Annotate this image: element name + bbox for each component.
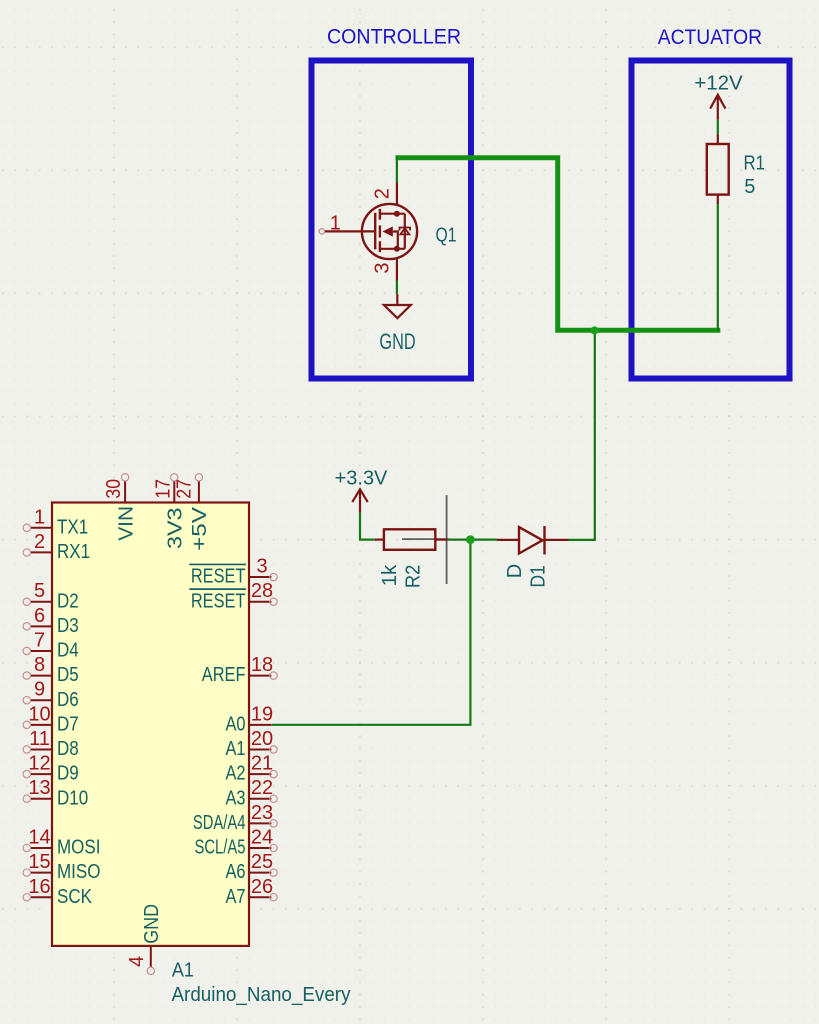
svg-text:D1: D1 (528, 565, 550, 588)
Q1 pin 2 drain (396, 183, 398, 205)
svg-text:30: 30 (103, 479, 125, 499)
svg-text:GND: GND (379, 329, 415, 354)
svg-text:13: 13 (28, 777, 50, 799)
svg-text:D5: D5 (57, 664, 79, 686)
svg-text:10: 10 (28, 703, 50, 725)
svg-text:3: 3 (256, 556, 267, 578)
svg-text:RESET: RESET (191, 590, 246, 612)
svg-text:16: 16 (28, 876, 50, 898)
wire: R1 bottom to thick net (717, 204, 719, 330)
pin 28 RESET (right) (249, 601, 271, 603)
svg-text:23: 23 (251, 802, 273, 824)
svg-text:A1: A1 (172, 959, 194, 981)
Q1 substrate arrow (382, 226, 392, 236)
svg-text:4: 4 (126, 956, 148, 967)
svg-text:+3.3V: +3.3V (335, 467, 388, 489)
svg-text:1: 1 (34, 506, 45, 528)
svg-text:22: 22 (251, 777, 273, 799)
svg-text:GND: GND (141, 904, 163, 944)
resistor R2 (375, 538, 384, 540)
svg-text:+12V: +12V (694, 72, 743, 94)
Q1 pin 3 source (396, 259, 398, 280)
pin 19 A0 (right) (249, 724, 271, 726)
pin 25 A6 (right) (249, 872, 271, 874)
Q1 schottky body diode (400, 228, 409, 234)
svg-text:A3: A3 (225, 787, 245, 809)
pin 24 SCL/A5 (right) (249, 847, 271, 849)
wire: node to Arduino A0 (272, 540, 471, 725)
svg-text:14: 14 (28, 826, 50, 848)
power +3.3V (352, 489, 367, 512)
wire: +3.3V to R2 (360, 512, 375, 539)
svg-text:20: 20 (251, 728, 273, 750)
Q1 junction dots (394, 211, 400, 217)
pin 9 D6 (left) (31, 699, 52, 701)
pin 2 RX1 (left) (31, 551, 52, 553)
svg-text:7: 7 (34, 629, 45, 651)
ground symbol (396, 294, 398, 305)
resistor R1 (707, 144, 729, 195)
svg-text:RESET: RESET (191, 566, 246, 588)
svg-text:D7: D7 (57, 713, 79, 735)
wire: thick drain net Q1 drain to actuator (396, 158, 721, 330)
Q1 drain internal (381, 213, 405, 215)
svg-text:A2: A2 (225, 763, 245, 785)
svg-text:6: 6 (34, 605, 45, 627)
wire: R2 to D1 anode (448, 538, 497, 540)
pin 11 D8 (left) (31, 748, 52, 750)
pin 26 A7 (right) (249, 896, 271, 898)
pin 23 SDA/A4 (right) (249, 822, 271, 824)
svg-text:Arduino_Nano_Every: Arduino_Nano_Every (172, 984, 351, 1006)
CONTROLLER box (312, 61, 472, 379)
Q1 body-diode leg (404, 214, 406, 249)
graphic line vertical (446, 495, 448, 584)
pin 4 GND (bottom) (150, 946, 152, 967)
svg-text:8: 8 (34, 654, 45, 676)
svg-text:17: 17 (153, 479, 175, 499)
svg-text:SDA/A4: SDA/A4 (193, 812, 246, 834)
junction on thick net (591, 326, 599, 334)
svg-text:D2: D2 (57, 590, 79, 612)
svg-text:1k: 1k (379, 564, 401, 587)
svg-text:A1: A1 (225, 738, 245, 760)
svg-text:D6: D6 (57, 689, 79, 711)
pin 1 TX1 (left) (31, 527, 52, 529)
svg-text:A6: A6 (225, 861, 245, 883)
pin 5 D2 (left) (31, 601, 52, 603)
svg-text:1: 1 (330, 213, 341, 235)
Q1 channel dashes (379, 209, 381, 252)
svg-text:15: 15 (28, 851, 50, 873)
svg-text:A7: A7 (225, 886, 245, 908)
pin 21 A2 (right) (249, 773, 271, 775)
svg-text:3V3: 3V3 (165, 508, 187, 550)
svg-text:21: 21 (251, 753, 273, 775)
ACTUATOR box (632, 61, 790, 379)
svg-text:D8: D8 (57, 738, 79, 760)
svg-text:D9: D9 (57, 763, 79, 785)
wire: Q1 drain stub (396, 158, 398, 183)
svg-text:12: 12 (28, 753, 50, 775)
svg-text:AREF: AREF (202, 664, 246, 686)
svg-text:5: 5 (744, 176, 755, 198)
svg-text:VIN: VIN (115, 506, 137, 541)
svg-text:SCL/A5: SCL/A5 (194, 837, 245, 859)
svg-text:11: 11 (29, 728, 50, 750)
svg-text:TX1: TX1 (57, 516, 88, 538)
graphic line horizontal (402, 538, 449, 540)
pin 15 MISO (left) (31, 872, 52, 874)
diode D1 (497, 539, 519, 541)
power +12V (710, 95, 725, 120)
svg-text:R2: R2 (403, 565, 425, 589)
wire: D1 cathode up to thick net (569, 330, 595, 540)
svg-text:26: 26 (251, 876, 273, 898)
svg-text:19: 19 (251, 703, 273, 725)
svg-text:ACTUATOR: ACTUATOR (658, 25, 762, 49)
pin 17 3V3 (top) (173, 481, 175, 503)
pin 10 D7 (left) (31, 724, 52, 726)
wire: Q1 source to GND (396, 281, 398, 295)
svg-text:D10: D10 (57, 787, 88, 809)
pin 18 AREF (right) (249, 675, 271, 677)
wire: +12V to R1 (717, 120, 719, 135)
transistor Q1 body circle (362, 204, 417, 259)
svg-text:+5V: +5V (189, 506, 211, 551)
Q1 source internal (381, 248, 405, 250)
Q1 gate bar (374, 213, 376, 250)
svg-text:D4: D4 (57, 640, 79, 662)
Q1 pin 1 gate (325, 230, 374, 232)
pin 14 MOSI (left) (31, 847, 52, 849)
svg-text:3: 3 (371, 262, 393, 273)
svg-text:24: 24 (251, 826, 273, 848)
svg-text:9: 9 (34, 679, 45, 701)
svg-text:18: 18 (251, 654, 273, 676)
svg-text:Q1: Q1 (436, 225, 457, 247)
pin 22 A3 (right) (249, 798, 271, 800)
pin 3 RESET (right) (249, 576, 271, 578)
svg-text:A0: A0 (225, 713, 245, 735)
svg-text:D: D (504, 564, 526, 578)
svg-text:MISO: MISO (57, 861, 100, 883)
pin 6 D3 (left) (31, 625, 52, 627)
pin 27 +5V (top) (198, 481, 200, 503)
junction at R2/D1 node (466, 535, 475, 544)
pin 16 SCK (left) (31, 896, 52, 898)
svg-text:R1: R1 (744, 152, 766, 174)
svg-text:D3: D3 (57, 615, 79, 637)
pin 30 VIN (top) (124, 481, 126, 503)
pin 8 D5 (left) (31, 675, 52, 677)
svg-text:2: 2 (34, 531, 45, 553)
IC A1 Arduino Nano Every body (52, 503, 249, 946)
svg-text:CONTROLLER: CONTROLLER (327, 25, 461, 49)
svg-text:25: 25 (251, 851, 273, 873)
svg-text:2: 2 (371, 188, 393, 199)
pin 13 D10 (left) (31, 798, 52, 800)
pin 7 D4 (left) (31, 650, 52, 652)
svg-text:RX1: RX1 (57, 541, 90, 563)
svg-text:5: 5 (34, 580, 45, 602)
pin 12 D9 (left) (31, 773, 52, 775)
svg-text:MOSI: MOSI (57, 837, 100, 859)
pin 20 A1 (right) (249, 748, 271, 750)
svg-text:SCK: SCK (57, 886, 93, 908)
svg-text:28: 28 (251, 580, 273, 602)
svg-text:27: 27 (174, 479, 196, 499)
